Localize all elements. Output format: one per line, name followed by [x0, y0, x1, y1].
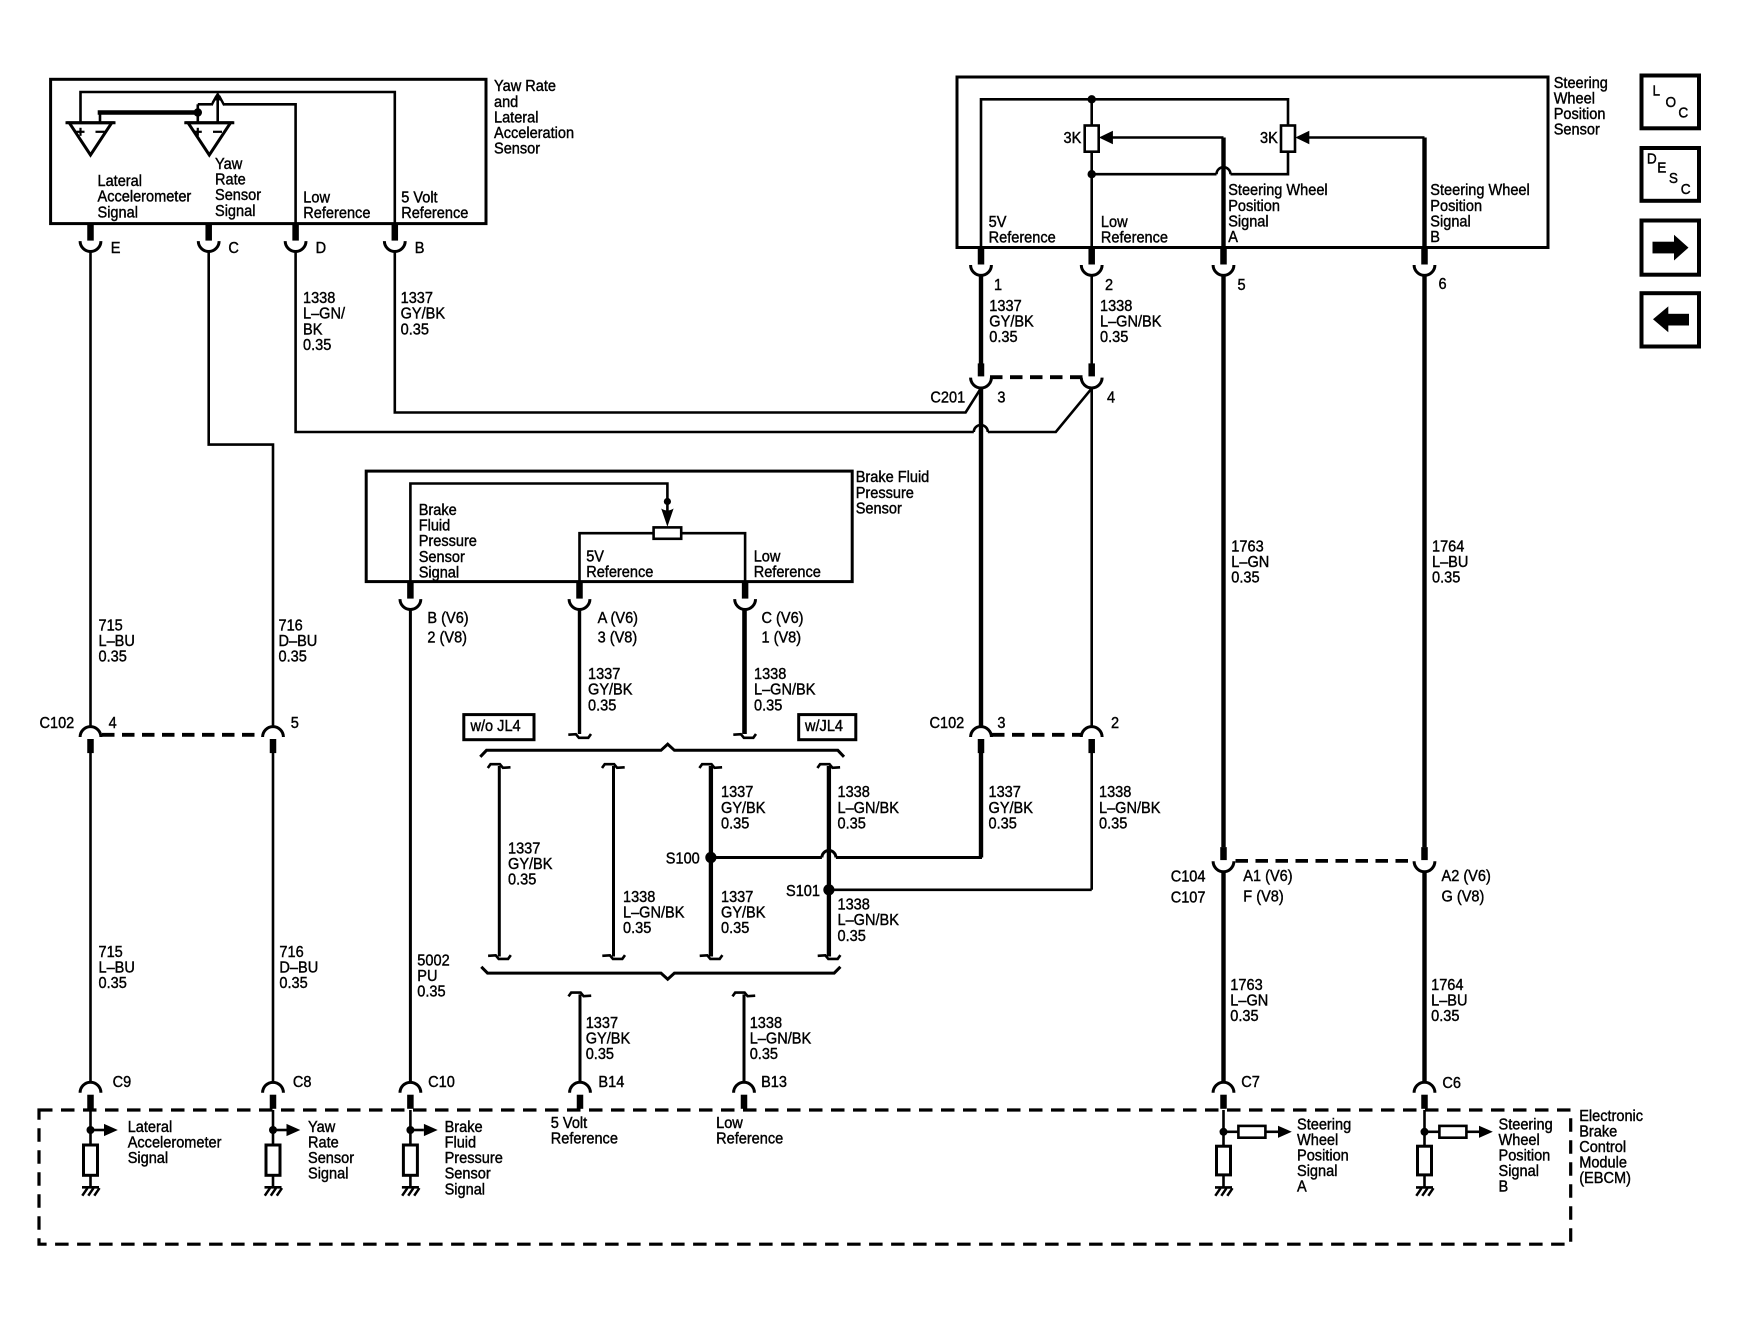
svg-text:B13: B13: [761, 1073, 787, 1091]
svg-text:C9: C9: [113, 1073, 132, 1091]
svg-text:Reference: Reference: [303, 205, 370, 223]
svg-text:S101: S101: [786, 882, 820, 900]
wire 1337 from C201-3 to C102-3: [979, 388, 983, 727]
wire: sensor signal inside BFPS: [410, 484, 667, 582]
svg-text:Reference: Reference: [551, 1130, 618, 1148]
sensor box: Brake Fluid Pressure Sensor: [366, 471, 852, 581]
label: wire 1338 L-GN/BK 0.35 (pin 2): [1100, 297, 1162, 346]
label: Steering Wheel Position Signal A: [1228, 182, 1327, 247]
label: wire 1337 GY/BK 0.35 (option 3 lower): [721, 888, 766, 937]
svg-text:Sensor: Sensor: [1554, 121, 1600, 139]
wire 1337 from brace to EBCM B14: [569, 993, 592, 1083]
connector C201 dashed line: [990, 375, 1089, 379]
svg-text:C10: C10: [428, 1073, 455, 1091]
wire 1338 from C102-2 down to S101: [829, 753, 1092, 890]
legend box right arrow: [1642, 221, 1700, 275]
wire 1337 from C102-3 down to S100 with hop: [711, 753, 982, 858]
svg-text:Signal: Signal: [215, 202, 255, 220]
svg-text:D: D: [1647, 151, 1657, 168]
svg-text:3K: 3K: [1260, 130, 1279, 148]
label: wire 716 D-BU 0.35 (lower): [279, 943, 318, 992]
wire: junction down to yaw + input: [197, 104, 200, 122]
svg-text:3: 3: [997, 714, 1005, 732]
wiper arrow down into potentiometer: [661, 509, 673, 527]
connector C102 right dashed line: [992, 733, 1081, 737]
svg-text:Reference: Reference: [401, 205, 468, 223]
connector pin B (V6) / 2 (V8): [400, 582, 469, 647]
svg-text:0.35: 0.35: [838, 815, 866, 833]
svg-text:C: C: [1678, 105, 1688, 122]
svg-text:S: S: [1669, 171, 1678, 188]
EBCM input: brake fluid pressure sensor signal (resistor to ground, arrow): [402, 1110, 503, 1198]
label: Steering Wheel Position Sensor: [1554, 74, 1608, 139]
wire: low reference inside BFPS: [681, 533, 745, 581]
label: wire 1763 L-GN 0.35 (pin 5): [1231, 538, 1269, 587]
label: wire 1338 L-GN/BK 0.35 (option 4 lower): [838, 896, 900, 945]
label: C201: [930, 389, 965, 407]
connector pin C: [198, 224, 239, 257]
label: wire 1337 GY/BK 0.35 (pin B): [401, 290, 446, 339]
wire: resistor 1 to low reference pin: [1090, 152, 1093, 248]
svg-text:(EBCM): (EBCM): [1579, 1170, 1631, 1188]
option wire 1338 (w/JL4 right): [817, 764, 840, 959]
wire: 5V reference inside steering sensor: [981, 99, 1288, 247]
label: pin F (V8): [1243, 888, 1283, 906]
junction node at yaw + input: [194, 108, 202, 116]
label: wire 1337 GY/BK 0.35 (option 1): [508, 840, 553, 889]
wire: steering pin 1 to C201 (1337): [979, 275, 983, 363]
label: 5 Volt Reference (yaw sensor): [401, 189, 468, 222]
wire: lateral accelerometer - input (thick) to junction: [98, 113, 198, 123]
svg-text:C7: C7: [1241, 1073, 1260, 1091]
svg-text:B: B: [1499, 1178, 1509, 1196]
label: Brake Fluid Pressure Sensor Signal: [419, 501, 477, 581]
label: wire 1337 GY/BK 0.35 (to B14): [586, 1014, 631, 1063]
wire: 5 volt reference inside sensor (B pin to lateral + input): [81, 92, 395, 224]
connector C102 pin 2: [1081, 727, 1102, 753]
svg-text:Signal: Signal: [445, 1181, 485, 1199]
EBCM dashed box: [39, 1110, 1571, 1244]
svg-text:1 (V8): 1 (V8): [762, 629, 802, 647]
label: wire 1338 L-GN/BK 0.35 (option 4 upper): [838, 784, 900, 833]
label: C201 pin 3: [997, 389, 1005, 407]
svg-text:0.35: 0.35: [1099, 815, 1127, 833]
wire: 5V line down to resistor 1: [1090, 99, 1093, 125]
svg-text:Reference: Reference: [754, 563, 821, 581]
svg-text:Reference: Reference: [586, 563, 653, 581]
svg-text:O: O: [1666, 94, 1677, 111]
label: wire 1338 L-GN/BK 0.35 (pin D): [303, 290, 346, 355]
svg-text:A: A: [1228, 228, 1238, 246]
label: wire 5002 PU 0.35: [417, 952, 449, 1001]
accelerometer symbol (yaw rate) with + -: [184, 123, 234, 155]
svg-text:C8: C8: [293, 1073, 312, 1091]
connector B13: [734, 1073, 787, 1108]
svg-text:B: B: [415, 239, 425, 257]
wire 1764 L-BU from steering pin 6 to C104: [1422, 275, 1426, 847]
wire: low reference inside sensor (junction to D pin) with crossover flares: [198, 96, 296, 224]
connector pin 5: [1213, 248, 1245, 295]
svg-text:0.35: 0.35: [989, 329, 1017, 347]
svg-text:Signal: Signal: [419, 564, 459, 582]
svg-text:0.35: 0.35: [99, 648, 127, 666]
connector C10: [400, 1073, 455, 1108]
svg-text:Reference: Reference: [1101, 229, 1168, 247]
wire 1337 from pin B to C201 pin 3: [395, 252, 981, 413]
svg-text:2 (V8): 2 (V8): [427, 629, 467, 647]
svg-text:E: E: [1657, 160, 1666, 177]
svg-text:B14: B14: [598, 1073, 624, 1091]
label: C107: [1171, 889, 1206, 907]
svg-text:C107: C107: [1171, 889, 1206, 907]
svg-text:0.35: 0.35: [279, 975, 307, 993]
svg-text:1: 1: [994, 277, 1002, 295]
svg-text:G (V8): G (V8): [1442, 888, 1485, 906]
label: pin A2 (V6): [1442, 867, 1491, 885]
wire 1338 from C201-4 to C102-2: [1090, 388, 1093, 727]
label: C102 (left): [40, 715, 75, 733]
svg-text:0.35: 0.35: [838, 927, 866, 945]
svg-text:3 (V8): 3 (V8): [598, 629, 638, 647]
svg-text:0.35: 0.35: [586, 1046, 614, 1064]
svg-text:E: E: [111, 239, 121, 257]
accelerometer symbol (lateral) with + -: [66, 123, 116, 155]
svg-text:Signal: Signal: [128, 1150, 168, 1168]
svg-text:Reference: Reference: [989, 229, 1056, 247]
svg-text:w/o JL4: w/o JL4: [470, 718, 522, 736]
wiper arrow: signal B into right resistor: [1295, 131, 1424, 145]
svg-text:A: A: [1297, 1178, 1307, 1196]
wire: 5V reference inside BFPS: [580, 533, 654, 581]
connector C102 left dashed line: [102, 733, 262, 737]
wiper arrow: signal A into left resistor: [1099, 131, 1224, 145]
splice S101: [786, 882, 835, 900]
svg-text:0.35: 0.35: [303, 336, 331, 354]
splice S100: [666, 850, 717, 868]
label: 5V Reference (steering): [989, 214, 1056, 247]
label: wire 1764 L-BU 0.35 (lower): [1431, 976, 1467, 1025]
wire 1763 from C104 to EBCM C7: [1221, 872, 1225, 1083]
wire 1764 from C104 to EBCM C6: [1422, 872, 1426, 1083]
svg-text:A2 (V6): A2 (V6): [1442, 867, 1491, 885]
label: Electronic Brake Control Module (EBCM): [1579, 1107, 1643, 1187]
svg-text:0.35: 0.35: [1431, 1007, 1459, 1025]
wire: steering pin 2 to C201 (1338): [1090, 275, 1093, 363]
wire 1337 from pin A to option brace: [568, 610, 591, 738]
junction node on signal wire: [664, 498, 671, 505]
svg-text:5: 5: [1238, 277, 1246, 295]
svg-text:Reference: Reference: [716, 1130, 783, 1148]
label: 5V Reference (BFPS): [586, 548, 653, 581]
svg-text:4: 4: [1107, 389, 1116, 407]
label: C102 pin 5: [291, 715, 299, 733]
svg-text:C: C: [228, 239, 239, 257]
connector C102 pin 5: [263, 727, 284, 753]
legend box left arrow: [1642, 293, 1700, 346]
option box w/o JL4: [464, 715, 534, 740]
label: C102 pin 3: [997, 714, 1005, 732]
connector C8: [263, 1073, 312, 1108]
svg-text:C104: C104: [1171, 868, 1206, 886]
label: 5 Volt Reference (EBCM B14): [551, 1114, 618, 1147]
label: wire 1763 L-GN 0.35 (lower): [1230, 976, 1268, 1025]
label: wire 1338 L-GN/BK 0.35 (below C102-2): [1099, 784, 1161, 833]
svg-text:0.35: 0.35: [1100, 329, 1128, 347]
wire: low line with hop over signal A: [1092, 152, 1288, 175]
svg-text:C102: C102: [40, 715, 75, 733]
label: wire 1764 L-BU 0.35 (pin 6): [1432, 538, 1468, 587]
connector C201 pin 3: [971, 363, 992, 388]
label: Low Reference (steering): [1101, 214, 1168, 247]
svg-text:0.35: 0.35: [989, 815, 1017, 833]
wire: yaw - input with up arrow to 5V line: [212, 92, 224, 123]
potentiometer element: [654, 527, 682, 538]
label: Low Reference (yaw sensor): [303, 189, 370, 222]
svg-text:0.35: 0.35: [508, 871, 536, 889]
svg-text:2: 2: [1111, 714, 1119, 732]
svg-text:0.35: 0.35: [99, 975, 127, 993]
connector C201 pin 4: [1081, 363, 1102, 388]
svg-text:0.35: 0.35: [750, 1046, 778, 1064]
svg-text:0.35: 0.35: [588, 697, 616, 715]
EBCM input: lateral accelerometer signal (resistor to ground, arrow): [82, 1110, 221, 1196]
EBCM input: steering wheel position signal A (series resistor, ground): [1215, 1110, 1351, 1196]
wire: signal B inside sensor: [1422, 138, 1426, 248]
svg-text:Signal: Signal: [308, 1165, 348, 1183]
svg-text:C: C: [1681, 181, 1691, 198]
option wire 1337 (w/o JL4 left): [488, 764, 511, 959]
label: wire 1337 GY/BK 0.35 (pin 1): [989, 297, 1034, 346]
svg-text:0.35: 0.35: [754, 697, 782, 715]
svg-text:0.35: 0.35: [279, 648, 307, 666]
svg-text:A (V6): A (V6): [598, 609, 638, 627]
label: wire 1338 L-GN/BK 0.35 (option 2): [623, 888, 685, 937]
svg-text:Sensor: Sensor: [494, 140, 540, 158]
svg-text:C (V6): C (V6): [762, 609, 804, 627]
label: pin A1 (V6): [1243, 867, 1292, 885]
label: wire 716 D-BU 0.35 (upper): [279, 617, 318, 666]
legend box DESC: [1642, 148, 1700, 201]
wire 1338 from pin C to option brace: [733, 610, 756, 738]
svg-text:C201: C201: [930, 389, 965, 407]
wire 1763 L-GN from steering pin 5 to C104: [1221, 275, 1225, 847]
label: Low Reference (BFPS): [754, 548, 821, 581]
connector C104/C107 pin A2(V6)/G(V8): [1414, 847, 1435, 872]
svg-text:Sensor: Sensor: [856, 500, 902, 518]
resistor 3K (left): [1064, 126, 1099, 152]
label: C102 pin 4: [109, 715, 118, 733]
wire: signal A inside sensor: [1221, 138, 1225, 248]
svg-text:3: 3: [997, 389, 1005, 407]
svg-text:B: B: [1430, 228, 1440, 246]
connector C102 pin 4: [80, 727, 101, 753]
connector pin E: [80, 224, 120, 257]
resistor 3K (right): [1260, 126, 1295, 152]
label: Brake Fluid Pressure Sensor (outside): [856, 469, 930, 518]
svg-text:0.35: 0.35: [721, 919, 749, 937]
wire 716 from C102-5 to EBCM C8: [272, 753, 275, 1083]
svg-text:C6: C6: [1442, 1075, 1461, 1093]
connector pin A (V6) / 3 (V8): [569, 582, 638, 647]
label: C104: [1171, 868, 1206, 886]
connector pin 2: [1081, 248, 1113, 295]
upper option brace: [480, 744, 844, 757]
svg-text:0.35: 0.35: [1432, 569, 1460, 587]
EBCM input: yaw rate sensor signal (resistor to ground, arrow): [265, 1110, 355, 1196]
wire 1338 from brace to EBCM B13: [733, 993, 756, 1083]
sensor box: Yaw Rate and Lateral Acceleration Sensor: [51, 79, 486, 223]
connector pin B: [384, 224, 424, 257]
svg-text:0.35: 0.35: [417, 983, 445, 1001]
connector pin 1: [971, 248, 1002, 295]
label: wire 715 L-BU 0.35 (lower): [99, 943, 135, 992]
connector C6: [1414, 1075, 1461, 1109]
connector C7: [1213, 1073, 1260, 1108]
wire 715 L-BU from pin E to C102: [89, 252, 92, 727]
label: Lateral Accelerometer Signal: [98, 173, 192, 222]
option wire 1338 (w/o JL4 right): [602, 764, 625, 959]
svg-text:0.35: 0.35: [1230, 1007, 1258, 1025]
label: pin G (V8): [1442, 888, 1485, 906]
sensor box: Steering Wheel Position Sensor: [957, 77, 1548, 248]
svg-text:C102: C102: [930, 714, 965, 732]
wire 5002 PU from pin B to EBCM C10: [409, 610, 412, 1083]
label: wire 1338 L-GN/BK 0.35 (to B13): [750, 1014, 812, 1063]
label: wire 1337 GY/BK 0.35 (below C102-3): [989, 784, 1034, 833]
svg-text:0.35: 0.35: [401, 321, 429, 339]
wire 1338 from pin D to C201 pin 4 with hop: [296, 252, 1092, 433]
connector C102 pin 3: [971, 727, 992, 754]
svg-text:A1 (V6): A1 (V6): [1243, 867, 1292, 885]
wire 716 D-BU from pin C to C102: [209, 252, 273, 727]
label: wire 1338 L-GN/BK 0.35 (pin C): [754, 666, 816, 715]
svg-text:6: 6: [1439, 276, 1447, 294]
connector B14: [570, 1073, 625, 1108]
label: Steering Wheel Position Signal B: [1430, 182, 1529, 247]
label: Yaw Rate and Lateral Acceleration Sensor: [494, 78, 574, 158]
svg-text:2: 2: [1105, 277, 1113, 295]
label: Low Reference (EBCM B13): [716, 1114, 783, 1147]
svg-text:L: L: [1653, 83, 1661, 100]
svg-text:B (V6): B (V6): [427, 609, 468, 627]
svg-text:S100: S100: [666, 850, 700, 868]
lower option brace: [481, 967, 840, 979]
svg-text:D: D: [316, 239, 327, 257]
junction node on 5V line: [1088, 95, 1096, 103]
label: Yaw Rate Sensor Signal: [215, 155, 261, 220]
option wire 1337 (w/JL4 left): [699, 764, 722, 959]
svg-text:Signal: Signal: [98, 204, 138, 222]
svg-text:w/JL4: w/JL4: [804, 718, 843, 736]
connector C9: [80, 1073, 131, 1108]
svg-text:0.35: 0.35: [1231, 569, 1259, 587]
connector C104 dashed line: [1236, 859, 1415, 863]
label: wire 715 L-BU 0.35 (upper): [99, 617, 135, 666]
svg-text:4: 4: [109, 715, 118, 733]
legend box LOC: [1642, 76, 1700, 129]
label: C201 pin 4: [1107, 389, 1116, 407]
connector pin 6: [1414, 248, 1446, 294]
svg-text:5: 5: [291, 715, 299, 733]
connector pin D: [285, 224, 326, 257]
connector C104/C107 pin A1(V6)/F(V8): [1213, 847, 1234, 872]
label: C102 (right): [930, 714, 965, 732]
svg-text:0.35: 0.35: [623, 919, 651, 937]
label: C102 pin 2: [1111, 714, 1119, 732]
svg-text:0.35: 0.35: [721, 815, 749, 833]
svg-text:3K: 3K: [1064, 130, 1083, 148]
connector pin C (V6) / 1 (V8): [735, 582, 804, 647]
svg-text:F (V8): F (V8): [1243, 888, 1283, 906]
label: wire 1337 GY/BK 0.35 (pin A): [588, 666, 633, 715]
EBCM input: steering wheel position signal B (series resistor, ground): [1416, 1110, 1553, 1196]
option box w/JL4: [799, 715, 856, 740]
wire 715 from C102-4 to EBCM C9: [89, 753, 92, 1083]
label: wire 1337 GY/BK 0.35 (option 3 upper): [721, 784, 766, 833]
junction node on low line: [1088, 170, 1096, 178]
